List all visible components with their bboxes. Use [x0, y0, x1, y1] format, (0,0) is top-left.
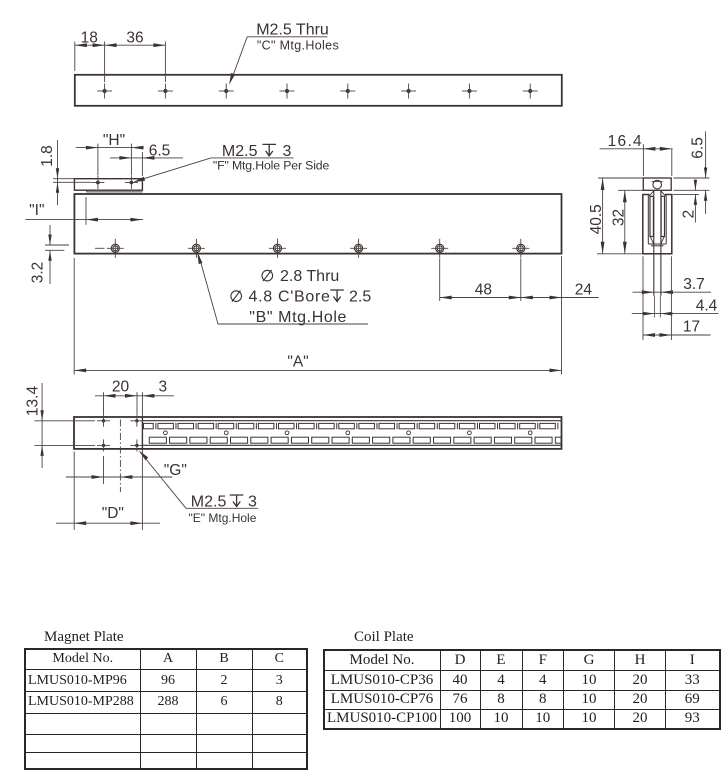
view3: assembly top outline	[74, 417, 562, 449]
coil plate table title	[354, 629, 414, 646]
svg-text:"A": "A"	[287, 354, 308, 371]
leader C holes	[232, 37, 248, 80]
dim 6.5 (side) extensions	[674, 177, 710, 179]
dim line I	[25, 219, 143, 221]
dim 48/24 extension lines	[439, 259, 441, 302]
svg-text:"F" Mtg.Hole Per Side: "F" Mtg.Hole Per Side	[213, 159, 330, 173]
view2: coil plate body outline	[74, 194, 561, 254]
dim line 18/36	[75, 44, 166, 46]
view1 hole C6	[401, 84, 416, 99]
view1 hole C2	[158, 84, 173, 99]
dim 2 extensions	[673, 193, 699, 195]
svg-text:24: 24	[575, 282, 593, 299]
dim 4.4	[632, 313, 719, 315]
view3 E hole 2	[130, 415, 143, 427]
view1 hole C8	[523, 84, 538, 99]
view2: tab step line	[86, 190, 88, 192]
dim 6.5 extension line	[141, 152, 143, 176]
svg-text:4.4: 4.4	[696, 298, 718, 315]
view2 F hole 1	[91, 176, 104, 189]
svg-text:48: 48	[475, 281, 492, 298]
svg-text:"D": "D"	[102, 505, 124, 522]
svg-text:6.5: 6.5	[149, 143, 171, 160]
side view: slot bottom chamfers	[650, 237, 653, 244]
view2 B hole 5	[431, 239, 448, 258]
view2 F hole 2	[125, 176, 138, 189]
svg-text:"B" Mtg.Hole: "B" Mtg.Hole	[249, 309, 347, 326]
dim line 16.4	[600, 148, 673, 150]
svg-text:16.4: 16.4	[608, 133, 643, 150]
dim H extension lines	[97, 144, 99, 176]
svg-text:M2.5: M2.5	[191, 494, 227, 511]
view1: magnet plate front outline	[75, 75, 562, 106]
view1 hole C3	[219, 84, 234, 99]
view3 E hole 1	[97, 415, 110, 427]
dim line 20/3	[95, 395, 174, 397]
callout dia 2.8 Thru	[262, 270, 273, 281]
dim 18 extension lines	[74, 42, 76, 72]
side view: F hole circle	[653, 180, 662, 189]
svg-text:3.7: 3.7	[683, 276, 705, 293]
side view: blade shoulders	[649, 191, 654, 196]
callout dia 4.8 CBore depth 2.5	[231, 291, 242, 302]
view1 hole C5	[340, 84, 355, 99]
coil plate table	[323, 649, 721, 730]
dim 36 extension line	[164, 42, 166, 83]
side view: slot walls	[647, 195, 649, 244]
view3 vertical centerline	[119, 420, 121, 493]
svg-text:2.8 Thru: 2.8 Thru	[280, 268, 339, 285]
svg-text:"C" Mtg.Holes: "C" Mtg.Holes	[257, 39, 339, 53]
dim 40.5	[598, 177, 643, 179]
svg-text:18: 18	[81, 30, 98, 47]
dim 13.4 lines	[34, 420, 95, 422]
view2 B hole 3	[269, 239, 286, 258]
magnet plate table	[24, 648, 308, 771]
dim line 48	[440, 297, 521, 299]
dim 32	[618, 189, 643, 191]
view3 E hole 4	[130, 439, 143, 451]
dim A extension lines	[73, 258, 75, 375]
dim 20/3 extension lines	[103, 392, 105, 414]
dim 17	[642, 256, 644, 340]
dim line H	[76, 147, 144, 149]
svg-text:"H": "H"	[103, 132, 125, 149]
view3 magnet slots top row	[144, 423, 558, 429]
view2 B hole 1	[107, 239, 124, 258]
view1 hole C7	[462, 84, 477, 99]
svg-text:36: 36	[126, 30, 143, 47]
view1 hole C1	[97, 84, 112, 99]
svg-text:M2.5 Thru: M2.5 Thru	[256, 22, 329, 39]
svg-text:4.8 C'Bore: 4.8 C'Bore	[249, 289, 331, 306]
view2 B hole 6	[512, 239, 529, 258]
view3: magnet rail inner lines	[143, 420, 562, 422]
svg-text:3: 3	[283, 143, 292, 160]
view3 E hole 3	[97, 439, 110, 451]
side view: magnet blade	[653, 190, 655, 295]
view2 B hole 4	[350, 239, 367, 258]
side view: coil left	[650, 196, 653, 236]
svg-text:3: 3	[158, 379, 167, 396]
svg-text:1.8: 1.8	[39, 145, 56, 167]
svg-text:3: 3	[248, 494, 257, 511]
svg-text:40.5: 40.5	[588, 204, 605, 234]
dim line D	[56, 522, 160, 524]
dim line 24	[521, 297, 599, 299]
dim I extension	[85, 197, 87, 225]
dim line 6.5	[110, 157, 183, 159]
svg-text:6.5: 6.5	[690, 137, 707, 159]
centerline dash left of B hole 1	[95, 247, 105, 249]
svg-text:"E" Mtg.Hole: "E" Mtg.Hole	[189, 511, 257, 525]
svg-text:2: 2	[681, 210, 698, 219]
dim D extension lines	[73, 452, 75, 531]
magnet plate table title	[44, 629, 124, 646]
dim G line	[66, 476, 172, 478]
view2: mounting tab	[74, 179, 142, 191]
svg-text:2.5: 2.5	[349, 289, 371, 306]
view3: coil plate right edge	[141, 417, 143, 449]
svg-text:17: 17	[683, 319, 700, 336]
leader F hole	[137, 158, 211, 181]
view3 magnet slots bottom row	[149, 437, 561, 443]
svg-text:32: 32	[610, 209, 627, 226]
svg-text:13.4: 13.4	[25, 386, 42, 417]
view2 B hole 2	[188, 239, 205, 258]
svg-text:"G": "G"	[164, 462, 187, 479]
svg-text:3.2: 3.2	[30, 262, 47, 284]
dim 3.7	[633, 291, 712, 293]
svg-text:20: 20	[112, 379, 130, 396]
dim 16.4 extensions	[642, 144, 644, 176]
view3 C hole circles	[164, 431, 533, 435]
dim 3.2 lines	[45, 244, 69, 246]
svg-text:M2.5: M2.5	[222, 143, 258, 160]
side view: channel outline	[643, 195, 672, 254]
leader B hole	[199, 256, 218, 324]
view1 hole C4	[280, 84, 295, 99]
side view: cap	[643, 178, 671, 190]
dim line A	[74, 369, 561, 371]
leader E hole	[141, 453, 186, 508]
side view: coil right	[661, 196, 664, 236]
dim 1.8 lines	[53, 178, 74, 180]
svg-text:"I": "I"	[29, 202, 44, 219]
